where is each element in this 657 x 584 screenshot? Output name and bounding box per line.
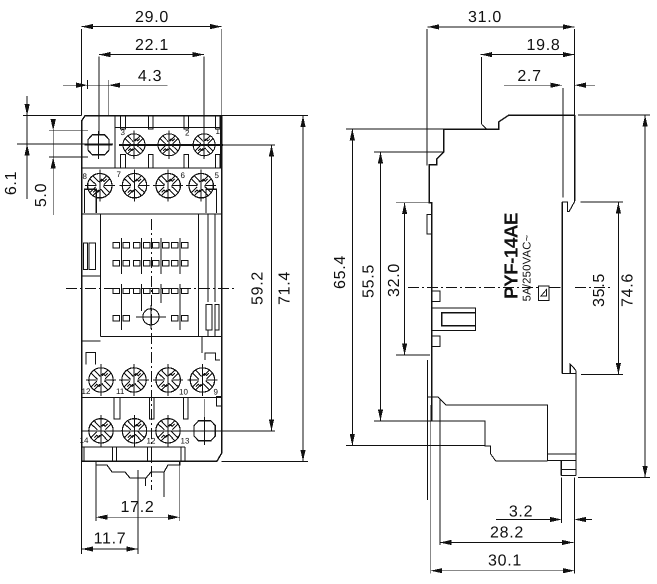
dim 55.5 xyxy=(374,152,485,421)
svg-text:19.8: 19.8 xyxy=(527,37,561,54)
bottom terminal shelf xyxy=(82,446,186,448)
dim 29.0 xyxy=(81,27,221,116)
dim 30.1 xyxy=(431,405,575,574)
dim 22.1 xyxy=(99,55,204,134)
approval mark box xyxy=(539,286,550,300)
side view centerline xyxy=(408,287,538,289)
step and shelf at 405 xyxy=(428,397,548,461)
lower DIN claw xyxy=(562,372,576,374)
svg-text:8: 8 xyxy=(83,172,88,181)
svg-text:12: 12 xyxy=(82,387,91,396)
dim 6.1 xyxy=(23,96,82,199)
terminal row3 xyxy=(86,364,116,396)
svg-text:11.7: 11.7 xyxy=(94,531,127,548)
hole top centerline xyxy=(17,143,113,145)
dim 65.4 xyxy=(346,129,485,446)
left edge latch slots xyxy=(84,243,88,269)
side body lower-left shelf xyxy=(432,421,548,461)
terminal row4 xyxy=(86,415,116,447)
small chamfer stub near 19.8 extension xyxy=(482,125,487,130)
dim 3.2 xyxy=(496,477,592,573)
svg-text:2.7: 2.7 xyxy=(517,68,541,85)
svg-text:5.0: 5.0 xyxy=(33,183,50,207)
dim 32.0 xyxy=(396,203,430,355)
retaining clip outer xyxy=(432,308,476,330)
top terminal block row1 xyxy=(115,116,221,168)
svg-text:1: 1 xyxy=(216,127,221,136)
svg-text:11: 11 xyxy=(116,387,125,396)
svg-text:6.1: 6.1 xyxy=(3,171,20,195)
dim 11.7 xyxy=(82,461,138,554)
front view horizontal centerline xyxy=(66,288,237,290)
side body top-left profile xyxy=(429,115,575,421)
dim 5.0 xyxy=(49,120,88,215)
row1 long centerline xyxy=(119,144,223,146)
contact slots row C xyxy=(113,288,188,293)
svg-text:4.3: 4.3 xyxy=(138,68,162,85)
svg-text:30.1: 30.1 xyxy=(488,553,522,570)
pin centerlines xyxy=(121,238,180,330)
body outline xyxy=(82,116,222,462)
svg-text:PYF-14AE: PYF-14AE xyxy=(502,213,523,299)
svg-text:2: 2 xyxy=(185,129,190,138)
svg-text:7: 7 xyxy=(117,170,122,179)
svg-text:28.2: 28.2 xyxy=(490,525,524,542)
contact slots row D + center hole xyxy=(113,309,188,325)
dim 2.7 xyxy=(504,85,595,197)
channel floor xyxy=(561,202,563,374)
face small tab upper xyxy=(432,291,441,301)
bottom claw box xyxy=(548,454,577,476)
left mid tab xyxy=(86,352,96,364)
svg-text:3: 3 xyxy=(121,128,126,137)
svg-text:29.0: 29.0 xyxy=(135,9,169,26)
contact slots row B xyxy=(113,261,188,266)
right mid structures xyxy=(201,337,203,354)
dim 74.6 xyxy=(578,115,650,477)
mounting hole top xyxy=(85,131,113,159)
dim 19.8 xyxy=(481,55,575,125)
svg-text:3.2: 3.2 xyxy=(509,504,533,521)
foot center lines xyxy=(145,478,147,486)
right mid tab xyxy=(217,397,222,406)
dim 71.4 xyxy=(222,116,308,462)
svg-text:35.5: 35.5 xyxy=(591,273,608,307)
terminal row1: circles cols 2-4 xyxy=(121,130,148,159)
svg-text:59.2: 59.2 xyxy=(250,271,267,305)
svg-text:14: 14 xyxy=(80,436,89,445)
dim 17.2 xyxy=(96,465,180,521)
divider row2/middle xyxy=(82,213,222,215)
contact slots row A xyxy=(113,242,188,247)
relay well xyxy=(101,214,222,337)
terminal row2 xyxy=(85,170,115,202)
svg-text:55.5: 55.5 xyxy=(361,264,378,298)
dim 59.2 xyxy=(271,145,273,431)
svg-text:31.0: 31.0 xyxy=(468,9,502,26)
svg-text:5A/250VAC~: 5A/250VAC~ xyxy=(522,234,534,301)
right tab row2 xyxy=(206,189,217,213)
svg-text:5: 5 xyxy=(215,171,220,180)
left shelf 2 xyxy=(82,340,101,342)
left tab row2 xyxy=(85,189,97,213)
svg-text:65.4: 65.4 xyxy=(332,255,349,289)
svg-text:71.4: 71.4 xyxy=(277,271,294,305)
divider row1/row2 xyxy=(82,167,222,169)
divider row3/row4 xyxy=(82,397,222,399)
svg-text:9: 9 xyxy=(214,388,219,397)
dim 31.0 xyxy=(427,27,575,166)
svg-text:32.0: 32.0 xyxy=(386,263,403,297)
svg-text:10: 10 xyxy=(179,388,188,397)
right edge top xyxy=(574,115,576,201)
front view vertical centerline xyxy=(151,219,153,490)
row4 long centerline xyxy=(82,430,275,432)
DIN foot profile xyxy=(96,461,180,478)
svg-text:6: 6 xyxy=(181,171,186,180)
svg-text:12: 12 xyxy=(147,437,156,446)
dim 4.3 hole dia xyxy=(63,80,168,117)
col4 centerline above bottom hole xyxy=(204,399,206,417)
right edge latch slots xyxy=(206,305,212,331)
left inner shelf xyxy=(82,275,101,277)
svg-text:74.6: 74.6 xyxy=(620,273,637,307)
second face line lower xyxy=(427,360,429,500)
face small tab lower xyxy=(432,336,441,346)
face notch xyxy=(427,215,432,234)
top edge partition slots xyxy=(121,116,221,168)
retaining clip inner xyxy=(442,313,476,326)
svg-text:22.1: 22.1 xyxy=(135,37,169,54)
slots below divider xyxy=(114,398,120,420)
dim 35.5 xyxy=(581,202,623,374)
bottom wall ticks xyxy=(84,447,181,462)
upper DIN hook xyxy=(562,201,575,211)
svg-text:13: 13 xyxy=(181,437,190,446)
dim 28.2 xyxy=(440,399,574,545)
mounting hole bottom xyxy=(191,417,219,445)
